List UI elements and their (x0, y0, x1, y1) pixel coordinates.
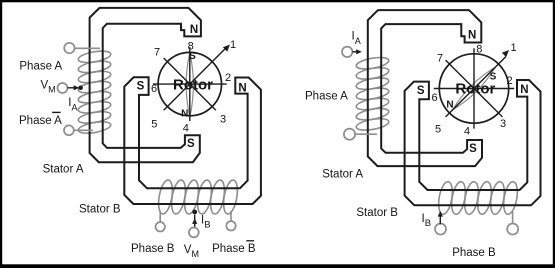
wire IB arrow into coil (439, 213, 441, 225)
svg-text:N: N (468, 29, 476, 41)
svg-text:5: 5 (151, 119, 157, 131)
terminal phase A bottom (right diagram) (344, 129, 355, 140)
svg-text:Phase B: Phase B (131, 243, 175, 255)
rotor spokes (left diagram) (153, 47, 227, 121)
svg-text:2: 2 (225, 72, 231, 84)
svg-text:N: N (238, 83, 246, 95)
rotor arrow to position 1 (right diagram) (502, 50, 509, 57)
node centre tap dot (phase A winding) (78, 86, 83, 91)
svg-text:3: 3 (500, 118, 506, 130)
svg-text:5: 5 (435, 124, 441, 136)
svg-text:Stator A: Stator A (43, 164, 84, 176)
svg-text:Phase A: Phase A (305, 90, 348, 102)
svg-text:Phase A: Phase A (19, 60, 62, 72)
stator A yoke (right diagram, C-shaped core with N top / S bottom pole boxes) (368, 10, 482, 166)
svg-text:7: 7 (154, 47, 160, 59)
svg-text:1: 1 (230, 39, 236, 51)
wire IA arrow into coil (352, 51, 357, 53)
svg-text:S: S (137, 81, 145, 93)
rotor magnet lens (right diagram, tilted 45deg) (453, 67, 496, 110)
svg-text:4: 4 (183, 123, 189, 135)
wire phase A terminal to coil (75, 47, 100, 49)
overline of B-bar (246, 240, 254, 242)
terminal Phase B (left diagram) (156, 222, 165, 231)
svg-text:S: S (469, 143, 477, 155)
svg-text:1: 1 (511, 42, 517, 54)
rotor step numbers 1-8 (left diagram) (151, 39, 236, 135)
rotor circle (left diagram) (158, 52, 221, 115)
svg-text:4: 4 (464, 126, 470, 138)
svg-text:2: 2 (506, 75, 512, 87)
svg-text:Stator B: Stator B (79, 204, 121, 216)
wire phase B right terminal to coil (512, 212, 514, 224)
svg-text:N: N (181, 109, 188, 120)
svg-text:Phase A: Phase A (19, 115, 62, 127)
overline of A-bar (52, 111, 60, 113)
terminal VM (left diagram, bottom) (189, 228, 199, 238)
rotor circle (right diagram) (439, 54, 508, 123)
svg-text:7: 7 (437, 53, 443, 65)
wire phase A-bar terminal to coil (74, 129, 93, 131)
winding L1 phase A coil (vertical, on stator A limb) (77, 49, 111, 135)
node centre tap dot (phase B winding) (192, 210, 197, 215)
svg-text:S: S (417, 85, 425, 97)
stator B yoke (right diagram, C-shaped core with S left / N right pole boxes) (405, 80, 541, 205)
svg-text:Stator B: Stator B (356, 207, 398, 219)
terminal phase B right (right diagram) (507, 224, 518, 235)
svg-text:N: N (520, 84, 528, 96)
svg-text:N: N (190, 24, 198, 36)
svg-text:S: S (187, 138, 195, 150)
winding R2 phase B coil (horizontal, on stator B bottom yoke) (436, 181, 519, 216)
svg-text:S: S (189, 51, 196, 62)
svg-text:6: 6 (151, 83, 157, 95)
svg-text:Rotor: Rotor (455, 81, 495, 98)
svg-text:Phase B: Phase B (452, 247, 496, 259)
stator B yoke (left diagram, C-shaped core with S left / N right pole boxes) (124, 77, 261, 204)
terminal VM (left diagram, left side) (58, 83, 68, 93)
svg-text:N: N (446, 100, 453, 111)
svg-text:Rotor: Rotor (173, 77, 213, 94)
rotor spokes (right diagram) (434, 48, 514, 128)
svg-text:Stator A: Stator A (322, 168, 363, 180)
stator A yoke (left diagram, C-shaped core with N top / S bottom pole boxes) (90, 8, 201, 162)
terminal Phase A-bar (left diagram) (64, 125, 74, 135)
wire VM arrow to centre tap (68, 87, 77, 89)
wire VM arrow to centre tap (bottom) (194, 215, 196, 227)
svg-text:6: 6 (431, 92, 437, 104)
rotor step numbers 1-8 (right diagram) (431, 42, 516, 138)
terminal phase B left (right diagram) (435, 224, 446, 235)
rotor arrow to position 1 (left diagram) (223, 45, 230, 52)
wire phase B-bar terminal to coil (230, 211, 232, 221)
wire phase B terminal to coil (159, 211, 161, 222)
svg-text:8: 8 (476, 43, 482, 55)
terminal Phase B-bar (left diagram) (226, 221, 235, 230)
terminal phase A top (right diagram) (342, 47, 352, 57)
terminal Phase A (left diagram) (64, 43, 74, 53)
winding R1 phase A coil (vertical, on stator A limb) (355, 55, 389, 132)
svg-text:Phase B: Phase B (212, 243, 256, 255)
svg-text:3: 3 (220, 114, 226, 126)
wire phase A bottom terminal to coil (355, 133, 377, 135)
rotor magnet lens (left diagram, vertical) (186, 53, 193, 118)
winding L2 phase B coil (horizontal, on stator B bottom yoke) (156, 179, 239, 215)
